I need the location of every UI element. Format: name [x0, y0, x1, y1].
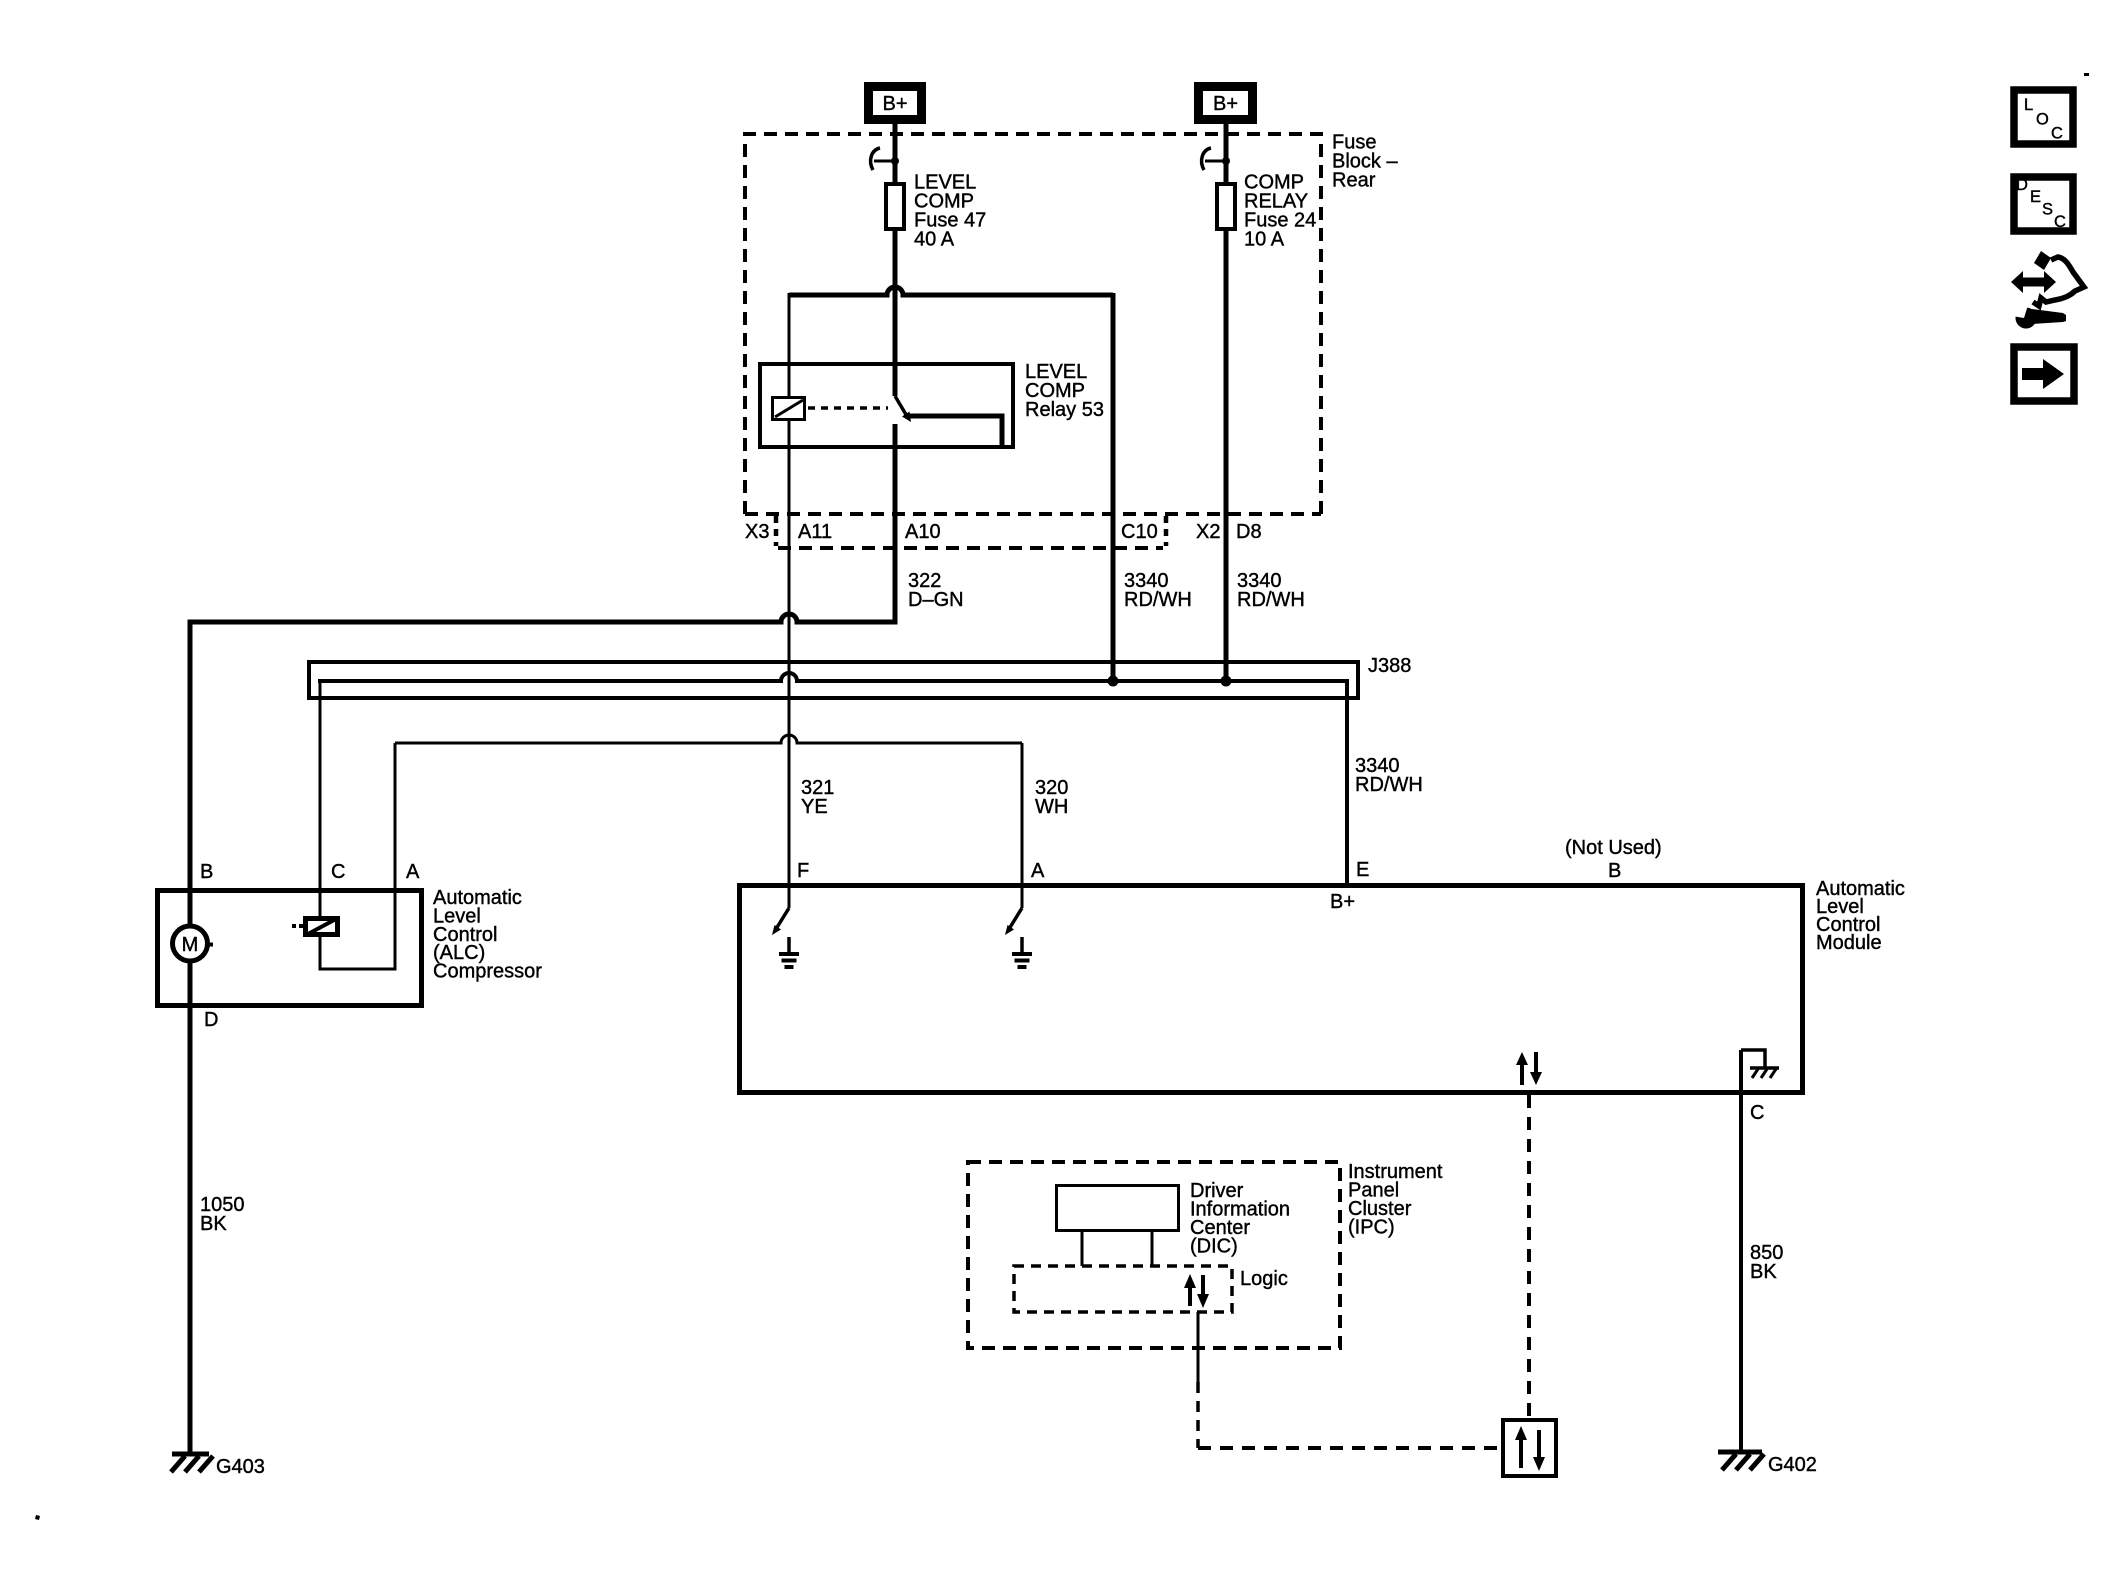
svg-text:10 A: 10 A: [1244, 229, 1285, 251]
svg-text:B+: B+: [882, 93, 907, 115]
serial data arrow box: [1503, 1420, 1556, 1476]
pressure switch actuator: [306, 919, 338, 935]
svg-text:C: C: [331, 861, 345, 883]
svg-text:RD/WH: RD/WH: [1237, 589, 1305, 611]
wire label 1050 BK: [200, 1194, 245, 1235]
svg-text:C: C: [2054, 213, 2066, 231]
wire module pin A vertical: [1021, 743, 1024, 883]
instrument panel cluster dashed box: [968, 1162, 1340, 1348]
wire fuse 47 output down to relay switch: [893, 229, 898, 396]
module switch at pin F: [772, 883, 789, 935]
ground symbol inside module (A): [1012, 937, 1032, 967]
wire relay output A10 down: [893, 424, 898, 625]
wire motor to box bottom / pin D: [188, 959, 193, 1454]
logic dashed box: [1014, 1266, 1232, 1312]
dashed serial data line from module: [1527, 1095, 1531, 1418]
data link arrows inside module: [1516, 1052, 1542, 1085]
wire coil low side A11 down to module pin F: [788, 421, 791, 883]
relay coil: [773, 398, 805, 420]
wire label 321 YE: [801, 777, 834, 818]
connector separator X3: [774, 516, 779, 546]
wire J388 bus right end down to module pin E: [1345, 681, 1349, 883]
svg-text:O: O: [2036, 111, 2049, 129]
connector X3/X2 band top dashed line: [745, 512, 1321, 516]
icon LOC: [2014, 90, 2073, 144]
wire DIC logic to serial line: [1197, 1312, 1200, 1382]
junction dot D8 on bus: [1221, 676, 1232, 687]
svg-text:A: A: [1031, 860, 1045, 882]
wire coil drop A11 upper: [788, 293, 791, 397]
svg-text:BK: BK: [1750, 1261, 1777, 1283]
wire module pin C down to G402: [1739, 1050, 1743, 1452]
wire C10 drop: [1111, 293, 1116, 679]
svg-text:B+: B+: [1330, 891, 1355, 913]
svg-text:C10: C10: [1121, 521, 1158, 543]
svg-text:BK: BK: [200, 1213, 227, 1235]
DIC label: [1190, 1180, 1290, 1258]
connector band bottom dashed line: [778, 546, 1163, 550]
svg-text:B: B: [200, 861, 213, 883]
wire J388 bus left end down to ALC pin C: [319, 681, 322, 918]
svg-text:(IPC): (IPC): [1348, 1217, 1395, 1239]
svg-text:C: C: [2051, 125, 2063, 143]
clip symbol at fuse 47: [871, 148, 899, 170]
stray mark top right: [2084, 73, 2089, 76]
svg-text:X2: X2: [1196, 521, 1220, 543]
svg-text:C: C: [1750, 1102, 1764, 1124]
wire label 3340 RD/WH (C10): [1124, 570, 1192, 611]
wire B+ right stem: [1224, 124, 1229, 182]
svg-text:E: E: [2030, 188, 2041, 206]
svg-text:M: M: [182, 934, 199, 956]
svg-text:D: D: [204, 1009, 218, 1031]
svg-text:Logic: Logic: [1240, 1268, 1288, 1290]
module box Automatic Level Control Module: [740, 886, 1803, 1093]
wire label 850 BK: [1750, 1242, 1783, 1283]
svg-text:F: F: [797, 860, 809, 882]
splice pack J388 case: [309, 662, 1358, 698]
power symbol B+ (left): [869, 87, 922, 120]
svg-text:(Not Used): (Not Used): [1565, 837, 1662, 859]
fuse block label: [1332, 132, 1398, 192]
pressure switch link dash-dot: [292, 924, 305, 928]
fuse 24 label: [1244, 172, 1316, 251]
connector separator X2: [1164, 516, 1169, 546]
dashed serial data line horizontal: [1198, 1446, 1501, 1450]
ground symbol inside module (F): [779, 937, 799, 967]
junction dot C10 on bus: [1108, 676, 1119, 687]
icon diagnostic pointer head: [2034, 251, 2051, 270]
power symbol B+ (right): [1199, 87, 1253, 120]
svg-text:A10: A10: [905, 521, 941, 543]
svg-text:RD/WH: RD/WH: [1355, 774, 1423, 796]
logic data arrows: [1184, 1274, 1209, 1308]
wire relay coil feed (y295 jumper with hop over fuse wire): [789, 287, 1113, 295]
ground G402: [1718, 1452, 1817, 1476]
svg-text:S: S: [2042, 201, 2053, 219]
svg-text:(DIC): (DIC): [1190, 1236, 1238, 1258]
wire 320 horizontal run ALC pin A to module pin A (hop over A11 wire): [395, 735, 1022, 743]
relay box LEVEL COMP Relay 53: [760, 364, 1013, 447]
relay contact to case (staple): [909, 416, 1002, 449]
wire label 3340 RD/WH (module E): [1355, 755, 1423, 796]
svg-text:D8: D8: [1236, 521, 1262, 543]
relay switch arm: [895, 396, 911, 422]
svg-text:A: A: [406, 861, 420, 883]
IPC label: [1348, 1161, 1443, 1239]
wire label 3340 RD/WH (D8): [1237, 570, 1305, 611]
svg-text:RD/WH: RD/WH: [1124, 589, 1192, 611]
DIC legs: [1081, 1231, 1084, 1266]
clip symbol at fuse 24: [1202, 148, 1230, 170]
wire 322 horizontal run (hop over A11 wire): [190, 614, 895, 622]
svg-text:G402: G402: [1768, 1454, 1817, 1476]
fuse COMP RELAY Fuse 24: [1217, 184, 1235, 229]
module switch at pin A: [1005, 883, 1022, 935]
J388 bus bar (hop over A11 wire): [318, 673, 1349, 681]
icon diagnostic double arrow: [2011, 271, 2056, 293]
internal chassis ground at module pin C: [1741, 1050, 1779, 1078]
svg-text:E: E: [1356, 859, 1369, 881]
svg-text:B+: B+: [1213, 93, 1238, 115]
svg-text:A11: A11: [798, 521, 832, 543]
svg-text:D–GN: D–GN: [908, 589, 964, 611]
DIC display box: [1057, 1186, 1179, 1231]
wire label 320 WH: [1035, 777, 1068, 818]
relay label: [1025, 361, 1104, 421]
ground G403: [171, 1454, 265, 1478]
svg-text:L: L: [2024, 96, 2033, 114]
stray mark bottom left: [35, 1515, 40, 1520]
svg-text:D: D: [2016, 176, 2028, 194]
icon diagnostic wrench: [2012, 303, 2066, 329]
svg-text:Rear: Rear: [1332, 170, 1376, 192]
relay mechanical link (dashed): [808, 406, 888, 410]
svg-text:Module: Module: [1816, 932, 1882, 954]
fuse LEVEL COMP Fuse 47: [886, 184, 904, 229]
svg-text:WH: WH: [1035, 796, 1068, 818]
svg-text:G403: G403: [216, 1456, 265, 1478]
svg-text:X3: X3: [745, 521, 769, 543]
icon forward arrow box: [2014, 347, 2074, 401]
wire B+ left stem: [893, 124, 898, 182]
wire D8 from fuse 24 down to J388: [1224, 229, 1229, 679]
wire inside ALC: switch to pin A elbow: [320, 935, 395, 969]
fuse 47 label: [914, 172, 986, 251]
motor M: [173, 926, 214, 961]
wire ALC pin A vertical: [394, 743, 397, 971]
svg-text:Compressor: Compressor: [433, 961, 542, 983]
icon diagnostic curved pointer: [2033, 257, 2084, 306]
wire label 322 D-GN: [908, 570, 964, 611]
ALC compressor box: [158, 891, 422, 1006]
fuse block - rear dashed enclosure: [745, 134, 1321, 514]
svg-text:J388: J388: [1368, 655, 1411, 677]
svg-text:YE: YE: [801, 796, 828, 818]
wire left branch down to ALC pin B: [188, 620, 193, 926]
svg-text:B: B: [1608, 860, 1621, 882]
module label: [1816, 878, 1905, 954]
ALC label: [433, 887, 542, 983]
svg-text:40 A: 40 A: [914, 229, 955, 251]
svg-text:Relay 53: Relay 53: [1025, 399, 1104, 421]
dashed serial data line down: [1196, 1382, 1200, 1448]
icon DESC: [2014, 176, 2073, 231]
